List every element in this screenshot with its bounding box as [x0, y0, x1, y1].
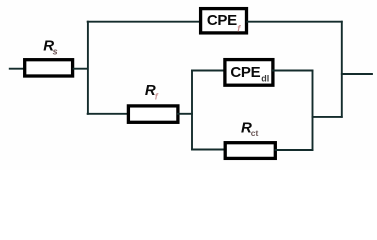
resistor R_f	[128, 106, 178, 122]
resistor Rs	[25, 60, 73, 76]
node D: inner right junction vertical	[312, 70, 314, 151]
svg-text:ct: ct	[251, 128, 259, 138]
label R_ct	[241, 119, 259, 138]
label R_f	[145, 82, 159, 101]
label CPE_f	[207, 12, 241, 33]
resistor R_ct	[225, 143, 275, 159]
svg-text:CPE: CPE	[207, 12, 237, 29]
wire: input lead (left)	[9, 68, 24, 70]
CPE C2: constant phase element CPE_dl	[225, 60, 273, 86]
wire: CPE_dl branch left (node C to CPE_dl)	[191, 70, 225, 72]
node C: inner left junction vertical	[191, 70, 193, 151]
label Rs	[43, 37, 57, 56]
wire: CPE_dl branch right (CPE_dl to node D)	[272, 70, 313, 72]
label CPE_dl	[230, 64, 269, 84]
wire: R_ct branch right (R_ct to node D)	[275, 149, 314, 151]
wire: R_ct branch left (node C to R_ct)	[191, 149, 226, 151]
wire: middle branch left (node A to R_f)	[87, 113, 129, 115]
wire: output lead (right)	[341, 73, 373, 75]
wire: Rs to node A	[73, 68, 89, 70]
CPE C1: constant phase element CPE_f	[201, 9, 247, 33]
svg-text:s: s	[53, 47, 58, 57]
wire: node D to node B connector	[312, 116, 343, 118]
node A: left junction vertical	[87, 21, 89, 115]
wire: top branch right (CPE_f to node B)	[247, 21, 343, 23]
svg-text:f: f	[155, 91, 159, 101]
wire: top branch left (node A to CPE_f)	[87, 21, 201, 23]
svg-text:CPE: CPE	[230, 64, 260, 81]
node B: outer right vertical	[341, 21, 343, 118]
wire: R_f to node C	[177, 113, 193, 115]
svg-text:dl: dl	[261, 74, 269, 84]
